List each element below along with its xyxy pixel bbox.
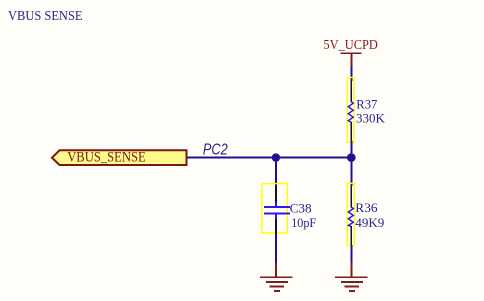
wire R36 pin 2 to ground bbox=[350, 245, 352, 262]
wire C38 pin 2 to ground bbox=[275, 233, 277, 262]
resistor R37 pin 2 bbox=[350, 122, 352, 141]
junction node B bbox=[347, 153, 356, 162]
svg-text:C38: C38 bbox=[290, 202, 312, 216]
resistor R36 pin 1 bbox=[350, 186, 352, 208]
svg-text:49K9: 49K9 bbox=[355, 216, 384, 230]
power symbol 5V_UCPD bar bbox=[340, 52, 361, 54]
resistor R36 body box bbox=[347, 183, 354, 245]
power symbol 5V_UCPD stub bbox=[350, 54, 352, 67]
wire R37 pin 2 to node B bbox=[350, 141, 352, 159]
svg-text:VBUS_SENSE: VBUS_SENSE bbox=[67, 150, 146, 166]
resistor R37 body box bbox=[347, 77, 354, 142]
wire node B to R36 pin 1 bbox=[350, 158, 352, 187]
capacitor C38 pin 2 bbox=[275, 219, 277, 234]
capacitor C38 plate 1 bbox=[264, 206, 290, 208]
capacitor C38 body box bbox=[262, 184, 288, 233]
resistor R37 pin 1 bbox=[350, 81, 352, 102]
svg-text:PC2: PC2 bbox=[203, 142, 228, 159]
ground symbol below R36 bbox=[335, 263, 368, 292]
svg-text:330K: 330K bbox=[356, 111, 385, 125]
resistor R37 zigzag bbox=[348, 102, 353, 123]
ground symbol below C38 bbox=[260, 263, 293, 292]
net flag VBUS_SENSE body bbox=[52, 150, 187, 165]
resistor R36 zigzag bbox=[348, 207, 353, 226]
svg-text:10pF: 10pF bbox=[291, 216, 316, 230]
capacitor C38 pin 2 tip bbox=[275, 214, 277, 219]
capacitor C38 pin 1 bbox=[275, 186, 277, 203]
wire power to R37 pin 1 bbox=[350, 67, 352, 82]
wire VBUS_SENSE flag to node B (horizontal) bbox=[187, 157, 353, 159]
capacitor C38 pin 1 tip bbox=[275, 203, 277, 207]
wire node A to C38 pin 1 bbox=[275, 158, 277, 187]
capacitor C38 plate 2 bbox=[264, 212, 290, 214]
svg-text:R36: R36 bbox=[355, 201, 377, 215]
junction node A bbox=[272, 153, 280, 161]
svg-text:VBUS SENSE: VBUS SENSE bbox=[8, 9, 83, 24]
svg-text:5V_UCPD: 5V_UCPD bbox=[323, 38, 378, 53]
resistor R36 pin 2 bbox=[350, 226, 352, 245]
svg-text:R37: R37 bbox=[356, 97, 377, 111]
